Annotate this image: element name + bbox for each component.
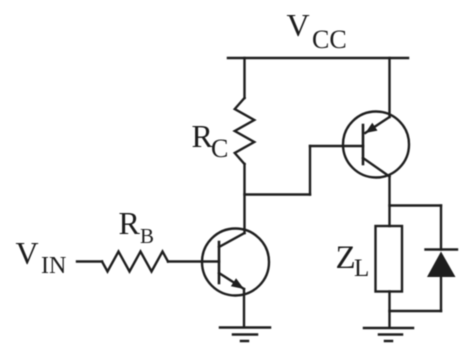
- wire to Q2 base lead: [310, 145, 363, 147]
- wire branch to diode (vertical): [440, 206, 442, 250]
- svg-text:B: B: [140, 224, 154, 248]
- node VCC rail: [228, 57, 408, 60]
- transistor Q1 emitter diagonal: [219, 273, 244, 289]
- transistor Q2 emitter arrow: [365, 123, 377, 133]
- transistor Q2 collector diagonal: [363, 158, 390, 177]
- transistor Q1 circle: [202, 229, 269, 296]
- impedance ZL box: [376, 226, 403, 292]
- resistor RC: [235, 98, 255, 164]
- wire VCC rail to RC top: [243, 58, 245, 98]
- wire RB to Q1 base: [168, 260, 219, 262]
- wire branch to diode (horizontal): [390, 204, 442, 206]
- wire VCC rail to Q2 emitter: [388, 58, 390, 117]
- wire VIN lead: [77, 260, 102, 262]
- svg-text:Z: Z: [336, 240, 356, 276]
- wire bottom junction (horizontal): [390, 310, 442, 312]
- label VIN: [16, 235, 67, 279]
- label VCC: [287, 7, 347, 54]
- diode D1 triangle: [427, 252, 456, 278]
- transistor Q1 base bar: [218, 242, 221, 283]
- resistor RB: [102, 252, 168, 272]
- svg-text:IN: IN: [41, 253, 66, 279]
- ground G1: [220, 328, 270, 342]
- svg-text:C: C: [211, 134, 228, 163]
- wire Q2 collector to ZL: [388, 177, 390, 227]
- label RB: [119, 205, 155, 248]
- transistor Q1 collector diagonal: [219, 233, 245, 247]
- label RC: [192, 118, 229, 163]
- wire node to Q2 base (horizontal): [245, 193, 311, 195]
- wire RC bottom to Q1 collector: [243, 164, 245, 233]
- wire Q1 emitter to ground: [243, 289, 245, 326]
- transistor Q2 circle: [343, 112, 409, 178]
- transistor Q2 emitter diagonal: [365, 117, 389, 133]
- svg-text:CC: CC: [312, 25, 347, 54]
- wire node to Q2 base (vertical): [309, 146, 311, 195]
- label ZL: [336, 240, 370, 282]
- diode D1 cathode bar: [426, 248, 458, 250]
- transistor Q1 emitter arrow: [231, 278, 244, 289]
- ground G2: [364, 328, 413, 341]
- svg-text:R: R: [119, 205, 141, 241]
- transistor Q2 base bar: [362, 125, 365, 164]
- wire ZL bottom to ground: [388, 292, 390, 327]
- svg-text:V: V: [16, 235, 39, 271]
- svg-text:L: L: [354, 255, 369, 282]
- wire diode to bottom junction: [440, 277, 442, 311]
- svg-text:V: V: [287, 7, 310, 43]
